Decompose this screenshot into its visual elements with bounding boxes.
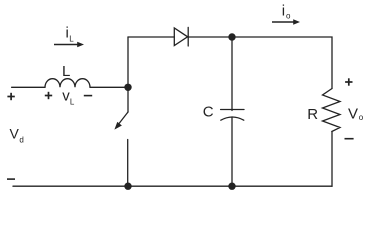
bottom junction dot under capacitor	[228, 183, 235, 190]
svg-text:V: V	[10, 126, 20, 142]
svg-text:d: d	[19, 136, 23, 145]
svg-text:L: L	[70, 97, 75, 106]
svg-text:o: o	[286, 11, 291, 20]
wire diode cathode to node B	[188, 36, 232, 38]
switch S blade with arrowhead	[114, 112, 128, 130]
label Vo	[348, 105, 364, 122]
node B junction dot	[228, 33, 235, 40]
switch S lower lead	[127, 140, 129, 187]
label vL	[62, 88, 75, 107]
svg-text:R: R	[307, 106, 318, 123]
svg-text:o: o	[359, 113, 364, 122]
minus sign output bottom	[345, 138, 354, 140]
wire top rail to diode anode	[128, 36, 174, 38]
label Vd	[10, 126, 24, 145]
current arrow iL	[54, 42, 84, 48]
wire inductor to node A	[90, 86, 128, 88]
capacitor C top lead wire	[231, 37, 233, 111]
minus sign source bottom terminal	[7, 178, 15, 180]
bottom junction dot under switch	[124, 183, 131, 190]
svg-text:L: L	[62, 63, 70, 80]
svg-text:L: L	[69, 34, 74, 43]
minus sign vL right	[84, 95, 92, 97]
inductor L	[45, 79, 90, 88]
capacitor C plates	[221, 110, 244, 121]
current label io	[282, 2, 291, 20]
switch S upper lead	[127, 87, 129, 112]
wire node B to top-right corner and down to resistor	[232, 37, 332, 89]
resistor R zigzag	[323, 89, 341, 132]
capacitor C bottom lead wire	[231, 117, 233, 186]
svg-text:V: V	[348, 105, 358, 122]
plus sign vL left	[45, 92, 52, 99]
plus sign output top	[345, 78, 352, 85]
node A junction dot	[124, 84, 131, 91]
wire input top from + terminal to inductor	[12, 86, 45, 88]
diode D1	[174, 27, 188, 46]
wire vertical node A up to diode rail	[127, 37, 129, 87]
svg-text:i: i	[282, 2, 285, 19]
svg-text:C: C	[203, 104, 214, 121]
current label iL	[66, 25, 75, 44]
wire resistor bottom to bottom rail	[331, 132, 333, 187]
current arrow io	[272, 19, 300, 25]
plus sign source terminal	[7, 93, 14, 100]
bottom rail wire	[13, 185, 332, 187]
